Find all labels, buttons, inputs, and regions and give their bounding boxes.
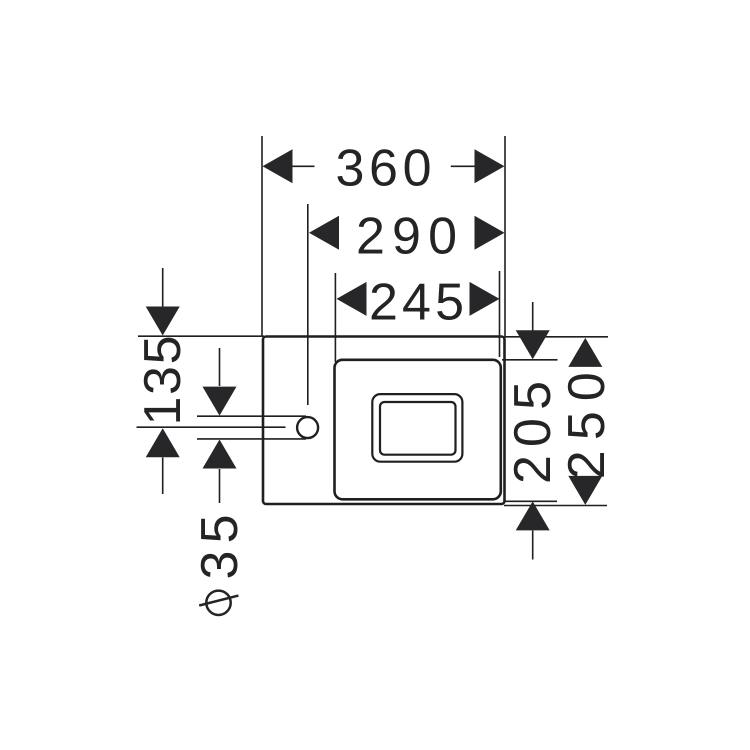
arrow 290 right	[475, 216, 505, 250]
arrow 360 right	[475, 149, 505, 183]
extension line right 205 bottom	[504, 500, 558, 502]
extension line right 205 top	[502, 359, 558, 361]
dimension D35 tail top	[219, 348, 221, 386]
arrow 245 right	[470, 282, 500, 316]
arrow 135 top (down)	[146, 307, 180, 336]
hole bottom tangent line	[197, 438, 306, 440]
arrow 245 left	[337, 282, 367, 316]
extension line left 245	[334, 273, 336, 362]
arrow 205 top (down)	[516, 330, 550, 359]
diameter symbol circle of D35	[206, 591, 230, 615]
svg-text:290: 290	[356, 207, 457, 265]
arrow 250 top (up)	[568, 338, 602, 367]
arrow D35 top (down)	[203, 387, 237, 416]
arrow 135 bottom (up)	[146, 428, 180, 457]
faucet hole circle	[297, 417, 318, 438]
extension line left 290 (to hole)	[307, 204, 309, 405]
diameter symbol slash of D35	[199, 596, 238, 606]
hole center extension line	[137, 426, 286, 428]
dimension 360 line stub right	[451, 165, 476, 167]
arrow D35 bottom (up)	[203, 440, 237, 469]
arrow 290 left	[309, 216, 339, 250]
extension line left 360	[261, 136, 263, 337]
extension line right 250 top	[505, 336, 609, 338]
svg-text:205: 205	[504, 381, 562, 484]
dimension D35 tail bottom	[219, 469, 221, 503]
dimension 135 tail top	[162, 268, 164, 307]
dimension 205 tail top	[532, 302, 534, 331]
extension line rect top to left	[138, 335, 264, 337]
svg-text:250: 250	[558, 372, 616, 479]
arrow 360 left	[263, 149, 293, 183]
extension line right 360/290	[504, 136, 506, 337]
basin inner bowl outline	[335, 360, 501, 500]
dimension 135 tail bottom	[162, 458, 164, 495]
arrow 250 bottom (down)	[568, 476, 602, 505]
drain outer outline	[372, 394, 462, 462]
drain inner outline	[380, 402, 456, 455]
arrow 205 bottom (up)	[516, 501, 550, 530]
basin outer outline	[263, 337, 505, 505]
svg-text:135: 135	[134, 336, 192, 426]
hole top tangent line	[197, 415, 306, 417]
dimension 205 tail bottom	[532, 531, 534, 560]
svg-text:245: 245	[369, 273, 464, 331]
svg-text:360: 360	[336, 140, 432, 198]
extension line right 250 bottom	[504, 505, 607, 507]
extension line right 245	[499, 271, 501, 357]
dimension 360 line stub left	[293, 165, 315, 167]
